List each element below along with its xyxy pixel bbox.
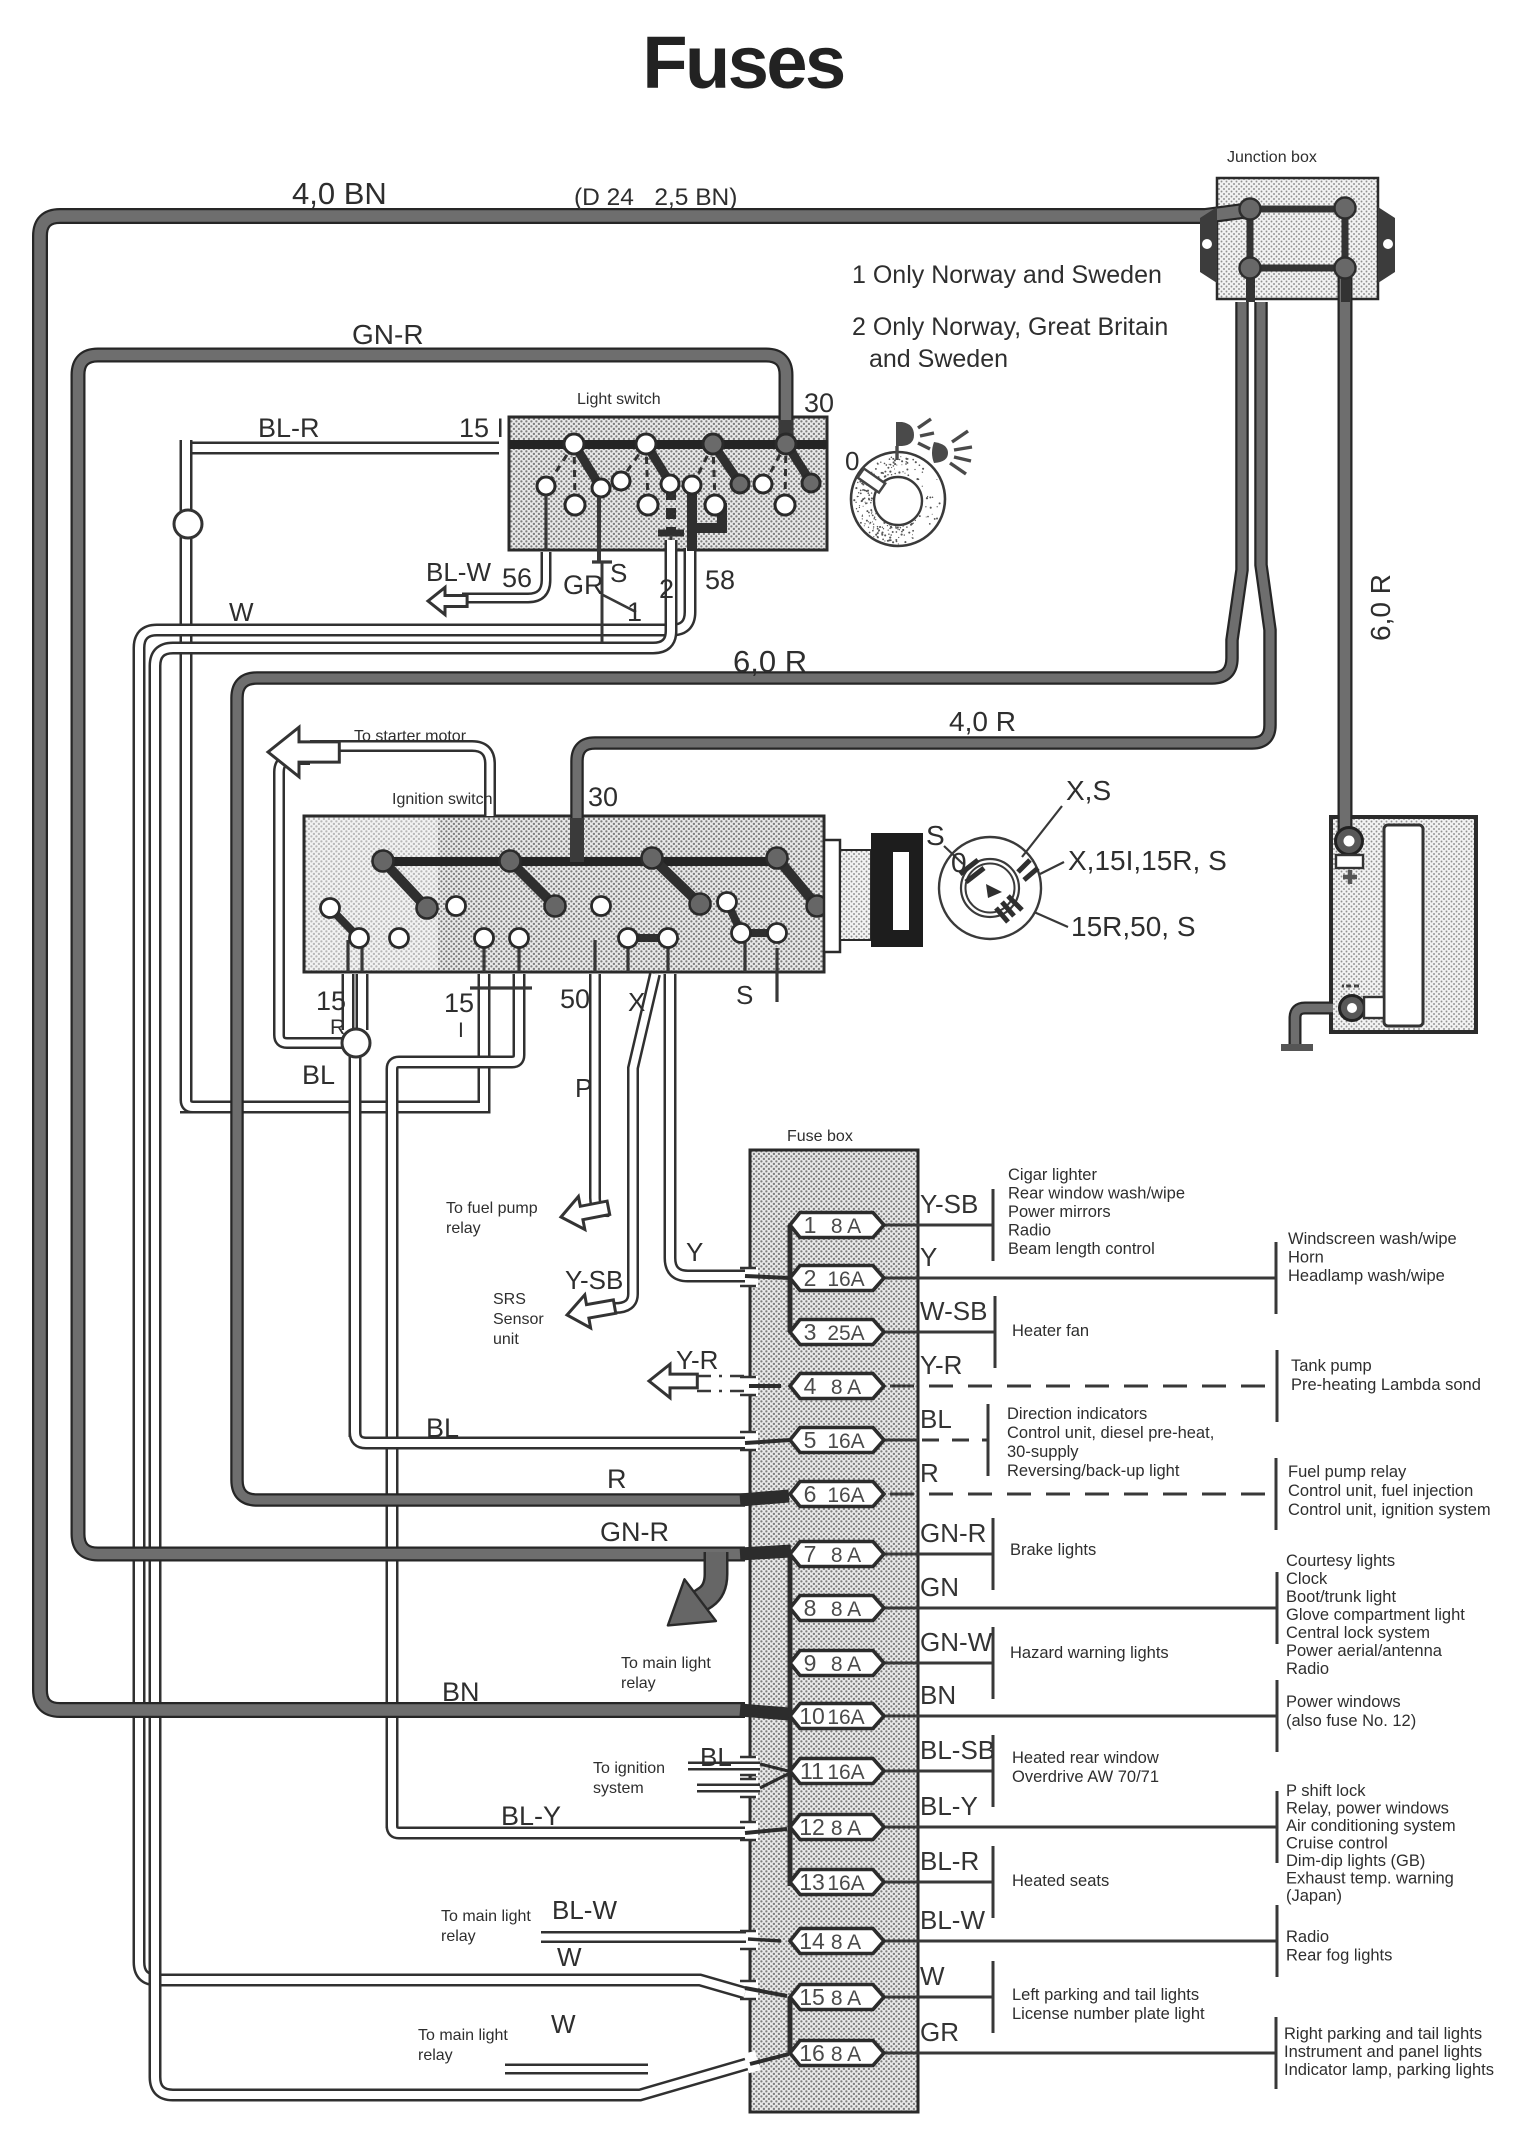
svg-text:Y: Y	[920, 1242, 937, 1272]
svg-text:4: 4	[804, 1373, 817, 1399]
svg-text:I: I	[458, 1019, 464, 1042]
svg-text:4,0 R: 4,0 R	[949, 706, 1016, 737]
svg-text:8 A: 8 A	[831, 1215, 861, 1238]
svg-text:0: 0	[951, 847, 967, 878]
svg-text:BL-W: BL-W	[426, 557, 491, 587]
svg-text:BL-R: BL-R	[258, 413, 320, 443]
svg-text:Power aerial/antenna: Power aerial/antenna	[1286, 1642, 1443, 1660]
svg-text:Radio: Radio	[1008, 1222, 1051, 1240]
svg-text:15: 15	[316, 986, 346, 1016]
svg-text:Relay, power windows: Relay, power windows	[1286, 1800, 1449, 1818]
svg-text:W: W	[229, 597, 254, 627]
svg-text:1 Only Norway and Sweden: 1 Only Norway and Sweden	[852, 261, 1162, 289]
svg-text:To main light: To main light	[418, 2027, 508, 2044]
svg-text:Control unit, ignition system: Control unit, ignition system	[1288, 1501, 1491, 1519]
svg-text:GR: GR	[563, 570, 604, 600]
svg-text:5: 5	[804, 1427, 817, 1453]
svg-text:11: 11	[800, 1758, 824, 1784]
svg-text:30-supply: 30-supply	[1007, 1443, 1079, 1461]
svg-text:Y: Y	[686, 1237, 703, 1267]
svg-text:Dim-dip lights (GB): Dim-dip lights (GB)	[1286, 1852, 1425, 1870]
svg-text:Fuel pump relay: Fuel pump relay	[1288, 1463, 1407, 1481]
svg-text:(D 24 2,5 BN): (D 24 2,5 BN)	[574, 184, 737, 211]
svg-text:Overdrive AW 70/71: Overdrive AW 70/71	[1012, 1768, 1159, 1786]
svg-text:Sensor: Sensor	[493, 1311, 544, 1328]
svg-text:8 A: 8 A	[831, 1987, 861, 2010]
svg-text:2: 2	[804, 1265, 817, 1291]
svg-text:Fuse box: Fuse box	[787, 1128, 853, 1145]
svg-text:Fuses: Fuses	[642, 21, 844, 104]
svg-text:BL-Y: BL-Y	[501, 1801, 561, 1831]
svg-text:Windscreen wash/wipe: Windscreen wash/wipe	[1288, 1230, 1457, 1248]
svg-text:Direction indicators: Direction indicators	[1007, 1405, 1147, 1423]
svg-text:8 A: 8 A	[831, 1376, 861, 1399]
svg-text:S: S	[736, 980, 753, 1010]
svg-text:8 A: 8 A	[831, 1653, 861, 1676]
svg-text:Radio: Radio	[1286, 1660, 1329, 1678]
svg-text:(also fuse No. 12): (also fuse No. 12)	[1286, 1712, 1416, 1730]
svg-text:To main light: To main light	[441, 1908, 531, 1925]
svg-text:15: 15	[799, 1984, 825, 2010]
svg-text:GN: GN	[920, 1572, 959, 1602]
svg-text:S: S	[610, 558, 627, 588]
svg-text:Air conditioning system: Air conditioning system	[1286, 1817, 1456, 1835]
svg-text:BL-Y: BL-Y	[920, 1791, 978, 1821]
svg-text:GR: GR	[920, 2017, 959, 2047]
svg-text:Radio: Radio	[1286, 1928, 1329, 1946]
svg-text:To fuel pump: To fuel pump	[446, 1200, 538, 1217]
svg-text:Power mirrors: Power mirrors	[1008, 1203, 1111, 1221]
svg-text:X,S: X,S	[1066, 775, 1111, 806]
svg-text:X,15I,15R, S: X,15I,15R, S	[1068, 845, 1227, 876]
svg-text:(Japan): (Japan)	[1286, 1887, 1342, 1905]
svg-text:BL: BL	[302, 1060, 335, 1090]
svg-text:Y-SB: Y-SB	[920, 1189, 978, 1219]
svg-text:Central lock system: Central lock system	[1286, 1624, 1430, 1642]
svg-text:relay: relay	[441, 1928, 476, 1945]
svg-text:BL: BL	[700, 1742, 732, 1772]
svg-text:BL: BL	[920, 1404, 952, 1434]
svg-text:6: 6	[804, 1481, 817, 1507]
svg-text:50: 50	[560, 984, 590, 1014]
svg-text:Heater fan: Heater fan	[1012, 1322, 1089, 1340]
svg-text:25A: 25A	[827, 1322, 864, 1345]
svg-text:2 Only Norway, Great Britain: 2 Only Norway, Great Britain	[852, 313, 1168, 341]
svg-text:8 A: 8 A	[831, 2043, 861, 2066]
svg-text:Y-R: Y-R	[676, 1345, 718, 1375]
svg-text:W: W	[551, 2009, 576, 2039]
svg-text:R: R	[920, 1458, 939, 1488]
svg-text:W: W	[920, 1961, 945, 1991]
svg-text:58: 58	[705, 565, 735, 595]
svg-text:To starter motor: To starter motor	[354, 728, 467, 745]
svg-text:R: R	[607, 1464, 627, 1494]
svg-text:Pre-heating Lambda sond: Pre-heating Lambda sond	[1291, 1376, 1481, 1394]
svg-text:Control unit, diesel pre-heat,: Control unit, diesel pre-heat,	[1007, 1424, 1214, 1442]
svg-text:BN: BN	[442, 1677, 480, 1707]
svg-text:To main light: To main light	[621, 1655, 711, 1672]
svg-text:4,0 BN: 4,0 BN	[292, 176, 387, 211]
svg-text:GN-R: GN-R	[352, 319, 424, 350]
svg-text:12: 12	[799, 1814, 825, 1840]
svg-text:Rear fog lights: Rear fog lights	[1286, 1947, 1392, 1965]
svg-text:Clock: Clock	[1286, 1570, 1328, 1588]
svg-text:Y-SB: Y-SB	[565, 1265, 623, 1295]
svg-text:License number plate light: License number plate light	[1012, 2005, 1205, 2023]
svg-text:Control unit, fuel injection: Control unit, fuel injection	[1288, 1482, 1473, 1500]
svg-text:S: S	[926, 820, 945, 851]
svg-text:16A: 16A	[827, 1484, 864, 1507]
svg-text:GN-R: GN-R	[920, 1518, 986, 1548]
svg-text:Courtesy lights: Courtesy lights	[1286, 1552, 1395, 1570]
svg-text:BN: BN	[920, 1680, 956, 1710]
svg-text:Ignition switch: Ignition switch	[392, 791, 493, 808]
svg-text:8 A: 8 A	[831, 1598, 861, 1621]
svg-text:Horn: Horn	[1288, 1249, 1324, 1267]
svg-text:Rear window wash/wipe: Rear window wash/wipe	[1008, 1185, 1185, 1203]
svg-text:X: X	[628, 987, 645, 1017]
svg-text:Boot/trunk light: Boot/trunk light	[1286, 1588, 1396, 1606]
svg-text:relay: relay	[621, 1675, 656, 1692]
svg-text:8 A: 8 A	[831, 1931, 861, 1954]
svg-text:P: P	[575, 1073, 592, 1103]
svg-text:Brake lights: Brake lights	[1010, 1541, 1096, 1559]
svg-text:3: 3	[804, 1319, 817, 1345]
svg-text:Hazard warning lights: Hazard warning lights	[1010, 1644, 1169, 1662]
svg-text:10: 10	[799, 1703, 825, 1729]
svg-text:15 I: 15 I	[459, 413, 504, 443]
svg-text:relay: relay	[418, 2047, 453, 2064]
svg-text:8 A: 8 A	[831, 1817, 861, 1840]
svg-text:BL-SB: BL-SB	[920, 1735, 995, 1765]
svg-text:9: 9	[804, 1650, 817, 1676]
svg-text:unit: unit	[493, 1331, 519, 1348]
svg-text:16A: 16A	[827, 1430, 864, 1453]
svg-text:To ignition: To ignition	[593, 1760, 665, 1777]
svg-text:BL-R: BL-R	[920, 1846, 979, 1876]
svg-text:Cigar lighter: Cigar lighter	[1008, 1166, 1097, 1184]
svg-text:Headlamp wash/wipe: Headlamp wash/wipe	[1288, 1267, 1445, 1285]
svg-text:1: 1	[627, 597, 642, 627]
svg-text:BL-W: BL-W	[552, 1895, 617, 1925]
svg-text:Cruise control: Cruise control	[1286, 1835, 1388, 1853]
svg-text:Indicator lamp, parking lights: Indicator lamp, parking lights	[1284, 2061, 1494, 2079]
svg-text:Beam length control: Beam length control	[1008, 1240, 1155, 1258]
svg-text:Left parking and tail lights: Left parking and tail lights	[1012, 1986, 1199, 2004]
svg-text:15R,50, S: 15R,50, S	[1071, 911, 1196, 942]
svg-text:Heated seats: Heated seats	[1012, 1872, 1109, 1890]
svg-text:8 A: 8 A	[831, 1544, 861, 1567]
svg-text:16: 16	[799, 2040, 825, 2066]
svg-text:GN-W: GN-W	[920, 1627, 993, 1657]
svg-text:7: 7	[804, 1541, 817, 1567]
svg-text:BL-W: BL-W	[920, 1905, 985, 1935]
svg-text:SRS: SRS	[493, 1291, 526, 1308]
svg-text:30: 30	[804, 388, 834, 418]
svg-text:system: system	[593, 1780, 644, 1797]
svg-text:Light switch: Light switch	[577, 391, 661, 408]
svg-text:14: 14	[799, 1928, 825, 1954]
svg-text:P shift lock: P shift lock	[1286, 1782, 1366, 1800]
svg-text:56: 56	[502, 563, 532, 593]
svg-text:6,0 R: 6,0 R	[1365, 574, 1396, 641]
svg-text:15: 15	[444, 988, 474, 1018]
svg-text:16A: 16A	[827, 1872, 864, 1895]
svg-text:Power windows: Power windows	[1286, 1693, 1401, 1711]
svg-text:30: 30	[588, 782, 618, 812]
svg-text:13: 13	[799, 1869, 825, 1895]
svg-text:Y-R: Y-R	[920, 1350, 962, 1380]
svg-text:W: W	[557, 1942, 582, 1972]
svg-text:16A: 16A	[827, 1706, 864, 1729]
svg-text:Heated rear window: Heated rear window	[1012, 1749, 1159, 1767]
svg-text:Right parking and tail lights: Right parking and tail lights	[1284, 2025, 1482, 2043]
svg-text:Junction box: Junction box	[1227, 149, 1317, 166]
svg-text:1: 1	[804, 1212, 817, 1238]
svg-text:BL: BL	[426, 1413, 459, 1443]
svg-text:Instrument and panel lights: Instrument and panel lights	[1284, 2043, 1482, 2061]
svg-text:W-SB: W-SB	[920, 1296, 987, 1326]
svg-text:Tank pump: Tank pump	[1291, 1357, 1372, 1375]
svg-text:6,0 R: 6,0 R	[733, 644, 807, 679]
svg-text:GN-R: GN-R	[600, 1517, 669, 1547]
svg-text:and Sweden: and Sweden	[869, 345, 1008, 373]
svg-text:relay: relay	[446, 1220, 481, 1237]
svg-text:16A: 16A	[827, 1761, 864, 1784]
svg-text:Exhaust temp. warning: Exhaust temp. warning	[1286, 1870, 1454, 1888]
svg-text:8: 8	[804, 1595, 817, 1621]
svg-text:16A: 16A	[827, 1268, 864, 1291]
svg-text:Reversing/back-up light: Reversing/back-up light	[1007, 1462, 1180, 1480]
svg-text:2: 2	[659, 574, 674, 604]
svg-text:Glove compartment light: Glove compartment light	[1286, 1606, 1465, 1624]
svg-text:0: 0	[845, 446, 859, 476]
